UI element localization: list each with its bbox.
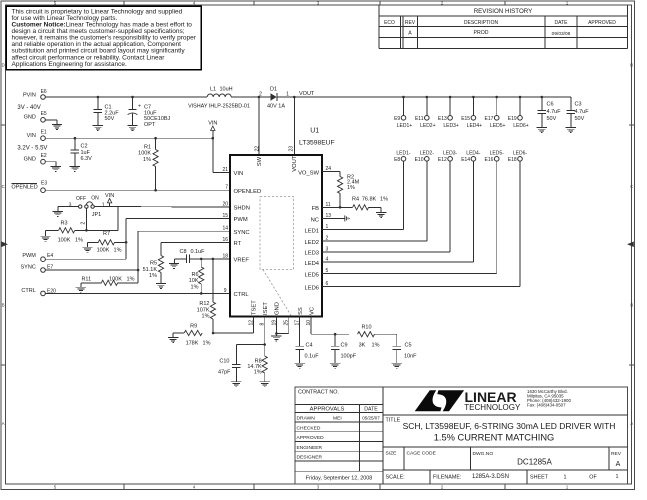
svg-text:GND: GND <box>24 115 36 121</box>
svg-text:PVIN: PVIN <box>23 92 36 98</box>
svg-text:NC: NC <box>311 217 319 223</box>
svg-text:C6: C6 <box>547 102 554 108</box>
svg-text:E16: E16 <box>484 157 493 163</box>
svg-text:1%: 1% <box>203 341 211 347</box>
svg-text:DWG.NO: DWG.NO <box>473 451 494 457</box>
svg-text:LED4-: LED4- <box>466 150 481 156</box>
svg-text:6.3V: 6.3V <box>81 156 93 162</box>
svg-text:1.5% CURRENT MATCHING: 1.5% CURRENT MATCHING <box>434 433 555 443</box>
svg-text:APPROVED: APPROVED <box>297 435 325 441</box>
svg-text:SYNC: SYNC <box>234 230 250 236</box>
svg-text:OPT: OPT <box>144 122 156 128</box>
svg-text:LED4: LED4 <box>304 261 319 267</box>
svg-text:23: 23 <box>289 146 295 152</box>
svg-text:1%: 1% <box>75 238 83 244</box>
svg-text:A: A <box>630 421 633 426</box>
svg-text:LED2: LED2 <box>304 240 319 246</box>
svg-text:Fax: (408)434-0507: Fax: (408)434-0507 <box>527 403 566 408</box>
svg-text:LED6: LED6 <box>304 285 319 291</box>
svg-text:SCH, LT3598EUF, 6-STRING 30mA: SCH, LT3598EUF, 6-STRING 30mA LED DRIVER… <box>403 421 616 431</box>
svg-text:E6: E6 <box>41 89 47 95</box>
svg-text:C2: C2 <box>81 144 88 150</box>
svg-text:3K: 3K <box>359 343 366 349</box>
svg-text:1%: 1% <box>143 157 151 163</box>
svg-text:APPROVALS: APPROVALS <box>310 407 345 413</box>
svg-text:A: A <box>616 461 621 468</box>
svg-text:10nF: 10nF <box>404 354 417 360</box>
svg-text:TECHNOLOGY: TECHNOLOGY <box>464 403 521 412</box>
svg-text:51.1K: 51.1K <box>143 267 158 273</box>
svg-text:SCALE:: SCALE: <box>386 475 405 481</box>
svg-text:20: 20 <box>222 202 228 208</box>
svg-text:SYNC: SYNC <box>21 264 36 270</box>
svg-text:16: 16 <box>222 237 228 243</box>
svg-text:CTRL: CTRL <box>234 292 250 298</box>
svg-text:2: 2 <box>80 222 86 225</box>
svg-text:R3: R3 <box>60 220 67 226</box>
svg-text:E3: E3 <box>41 181 47 187</box>
svg-text:R12: R12 <box>199 301 209 307</box>
svg-text:100K: 100K <box>138 151 151 157</box>
svg-text:R4: R4 <box>352 196 359 202</box>
svg-text:OPENLED: OPENLED <box>234 189 262 195</box>
svg-text:C3: C3 <box>575 102 582 108</box>
svg-text:1%: 1% <box>191 284 199 290</box>
svg-text:R11: R11 <box>81 276 91 282</box>
svg-text:E12: E12 <box>438 157 447 163</box>
svg-text:C: C <box>2 184 5 189</box>
svg-text:B: B <box>2 303 5 308</box>
svg-text:CTRL: CTRL <box>21 288 35 294</box>
svg-text:3: 3 <box>326 246 329 252</box>
svg-text:178K: 178K <box>186 341 199 347</box>
svg-text:9: 9 <box>224 288 227 294</box>
svg-text:10uH: 10uH <box>220 86 233 92</box>
svg-text:4: 4 <box>326 257 329 263</box>
svg-text:R7: R7 <box>103 231 110 237</box>
svg-text:40V 1A: 40V 1A <box>267 103 285 109</box>
svg-text:10K: 10K <box>189 278 199 284</box>
svg-text:LED3: LED3 <box>304 251 319 257</box>
svg-text:ISET: ISET <box>263 302 269 315</box>
svg-text:18: 18 <box>222 253 228 259</box>
svg-text:OF: OF <box>589 475 597 481</box>
svg-text:LED1+: LED1+ <box>397 123 413 129</box>
svg-text:LT3598EUF: LT3598EUF <box>299 140 335 147</box>
svg-text:LED3+: LED3+ <box>443 123 459 129</box>
svg-text:1: 1 <box>326 224 329 230</box>
svg-text:E17: E17 <box>484 116 493 122</box>
svg-text:LED6-: LED6- <box>513 150 528 156</box>
svg-text:TSET: TSET <box>252 300 258 315</box>
svg-text:FB: FB <box>312 206 320 212</box>
svg-text:0.1uF: 0.1uF <box>305 354 320 360</box>
svg-text:A: A <box>408 31 412 37</box>
svg-text:R5: R5 <box>150 261 157 267</box>
svg-text:76.8K: 76.8K <box>362 196 377 202</box>
svg-text:E15: E15 <box>461 116 470 122</box>
svg-text:13: 13 <box>326 213 332 219</box>
svg-text:L1: L1 <box>210 86 216 92</box>
svg-text:LED5-: LED5- <box>490 150 505 156</box>
svg-text:OPENLED: OPENLED <box>11 184 37 190</box>
svg-text:E10: E10 <box>415 157 424 163</box>
svg-text:3V - 40V: 3V - 40V <box>17 105 40 111</box>
svg-text:R6: R6 <box>191 272 198 278</box>
svg-text:OFF: OFF <box>76 196 86 202</box>
svg-text:REV: REV <box>611 451 622 457</box>
svg-text:R1: R1 <box>144 144 151 150</box>
svg-text:VIN: VIN <box>234 171 244 177</box>
svg-text:LED1: LED1 <box>304 228 319 234</box>
svg-text:SW: SW <box>257 156 263 166</box>
svg-text:DC1285A: DC1285A <box>517 457 552 466</box>
svg-text:VISHAY IHLP-2525BD-01: VISHAY IHLP-2525BD-01 <box>188 103 250 109</box>
svg-text:D: D <box>630 63 633 68</box>
svg-text:0.1uF: 0.1uF <box>190 249 205 255</box>
svg-text:E1: E1 <box>41 129 47 135</box>
svg-text:3: 3 <box>69 202 72 208</box>
svg-text:E8: E8 <box>394 157 400 163</box>
svg-text:1: 1 <box>564 475 567 481</box>
svg-text:22: 22 <box>255 146 261 152</box>
svg-text:SS: SS <box>298 307 304 315</box>
svg-text:09/03/08: 09/03/08 <box>552 31 571 37</box>
svg-text:E9: E9 <box>394 116 400 122</box>
svg-text:1: 1 <box>616 474 619 480</box>
svg-text:D: D <box>2 63 5 68</box>
svg-text:PWM: PWM <box>234 217 248 223</box>
svg-text:VOUT: VOUT <box>299 91 315 97</box>
svg-text:TITLE: TITLE <box>386 418 401 424</box>
svg-text:100K: 100K <box>109 276 122 282</box>
svg-text:E13: E13 <box>438 116 447 122</box>
svg-text:RT: RT <box>234 241 242 247</box>
svg-text:VO_SW: VO_SW <box>298 170 319 176</box>
svg-text:50V: 50V <box>105 116 115 122</box>
svg-text:1uF: 1uF <box>81 150 91 156</box>
svg-text:100pF: 100pF <box>341 354 357 360</box>
svg-text:DESIGNER: DESIGNER <box>297 455 323 461</box>
svg-text:FILENAME:: FILENAME: <box>433 475 461 481</box>
svg-text:LED1-: LED1- <box>396 150 411 156</box>
svg-text:100K: 100K <box>58 238 71 244</box>
svg-text:A: A <box>2 421 5 426</box>
svg-text:LED6+: LED6+ <box>513 123 529 129</box>
svg-text:CONTRACT NO.: CONTRACT NO. <box>298 390 339 396</box>
svg-text:C4: C4 <box>306 343 313 349</box>
svg-text:Friday, September 12, 2008: Friday, September 12, 2008 <box>306 476 372 482</box>
svg-text:4.7uF: 4.7uF <box>547 109 562 115</box>
svg-text:1%: 1% <box>372 343 380 349</box>
svg-text:1%: 1% <box>254 370 262 376</box>
svg-text:REV: REV <box>405 20 416 26</box>
svg-text:DRAWN: DRAWN <box>297 416 316 422</box>
svg-text:50V: 50V <box>575 116 585 122</box>
svg-text:LED2+: LED2+ <box>420 123 436 129</box>
svg-text:MEI: MEI <box>333 416 342 422</box>
svg-text:1: 1 <box>102 202 105 208</box>
svg-text:DESCRIPTION: DESCRIPTION <box>464 20 499 26</box>
svg-text:47pF: 47pF <box>218 369 231 375</box>
svg-text:E5: E5 <box>41 111 47 117</box>
svg-text:21: 21 <box>222 167 228 173</box>
svg-text:PROD: PROD <box>474 30 489 36</box>
svg-text:C5: C5 <box>405 343 412 349</box>
svg-text:SIZE: SIZE <box>386 451 398 457</box>
svg-text:SHDN: SHDN <box>234 206 250 212</box>
svg-text:14: 14 <box>222 226 228 232</box>
svg-text:1: 1 <box>286 92 289 98</box>
svg-text:PWM: PWM <box>22 253 36 259</box>
svg-text:JP1: JP1 <box>92 212 101 218</box>
svg-text:GND: GND <box>275 302 281 315</box>
svg-text:24: 24 <box>326 166 332 172</box>
svg-text:ECO: ECO <box>384 20 395 26</box>
svg-text:C: C <box>630 184 633 189</box>
svg-text:ON: ON <box>91 196 99 202</box>
svg-text:CHECKED: CHECKED <box>297 425 321 431</box>
svg-text:LED2-: LED2- <box>420 150 435 156</box>
svg-text:E11: E11 <box>415 116 424 122</box>
svg-text:100K: 100K <box>97 247 110 253</box>
svg-text:1285A-3.DSN: 1285A-3.DSN <box>472 474 509 480</box>
svg-text:3.2V - 5.5V: 3.2V - 5.5V <box>17 145 47 151</box>
svg-text:DATE: DATE <box>364 407 378 413</box>
svg-text:1%: 1% <box>114 247 122 253</box>
svg-text:SHEET: SHEET <box>530 475 549 481</box>
svg-text:107K: 107K <box>197 307 210 313</box>
svg-text:CAGE CODE: CAGE CODE <box>407 451 437 457</box>
svg-text:C8: C8 <box>179 249 186 255</box>
svg-text:5: 5 <box>326 268 329 274</box>
svg-text:1%: 1% <box>149 273 157 279</box>
svg-text:R9: R9 <box>190 324 197 330</box>
svg-text:+: + <box>138 104 141 110</box>
svg-text:LED4+: LED4+ <box>467 123 483 129</box>
svg-text:1%: 1% <box>380 196 388 202</box>
svg-text:E18: E18 <box>508 157 517 163</box>
svg-text:VC: VC <box>309 307 315 315</box>
svg-text:VREF: VREF <box>234 258 250 264</box>
svg-text:C9: C9 <box>341 343 348 349</box>
svg-text:05/25/07: 05/25/07 <box>362 416 380 421</box>
svg-text:VOUT: VOUT <box>292 155 298 172</box>
svg-text:VIN: VIN <box>27 133 36 139</box>
svg-text:E14: E14 <box>461 157 470 163</box>
svg-text:ENGINEER: ENGINEER <box>297 445 323 451</box>
svg-text:GND: GND <box>24 157 36 163</box>
svg-text:APPROVED: APPROVED <box>588 20 616 26</box>
svg-text:11: 11 <box>326 202 331 208</box>
svg-text:15: 15 <box>222 213 228 219</box>
svg-text:B: B <box>630 303 633 308</box>
svg-text:E4: E4 <box>47 253 53 259</box>
svg-text:1%: 1% <box>202 314 210 320</box>
svg-text:E2: E2 <box>41 153 47 159</box>
svg-text:LED5: LED5 <box>304 272 319 278</box>
svg-text:Applications Engineering for a: Applications Engineering for assistance. <box>12 61 127 68</box>
svg-text:D1: D1 <box>270 86 277 92</box>
svg-text:2: 2 <box>326 236 329 242</box>
svg-text:LED3-: LED3- <box>443 150 458 156</box>
svg-text:U1: U1 <box>310 127 319 134</box>
svg-text:1%: 1% <box>127 276 135 282</box>
svg-text:4.7uF: 4.7uF <box>575 109 590 115</box>
svg-text:6: 6 <box>326 281 329 287</box>
svg-text:REVISION HISTORY: REVISION HISTORY <box>474 8 533 15</box>
svg-text:50V: 50V <box>547 116 557 122</box>
svg-text:DATE: DATE <box>555 20 569 26</box>
svg-text:C10: C10 <box>219 359 229 365</box>
svg-text:E19: E19 <box>508 116 517 122</box>
svg-text:1%: 1% <box>347 185 355 191</box>
svg-text:R10: R10 <box>361 325 371 331</box>
svg-text:7: 7 <box>225 185 228 191</box>
svg-text:LED5+: LED5+ <box>490 123 506 129</box>
